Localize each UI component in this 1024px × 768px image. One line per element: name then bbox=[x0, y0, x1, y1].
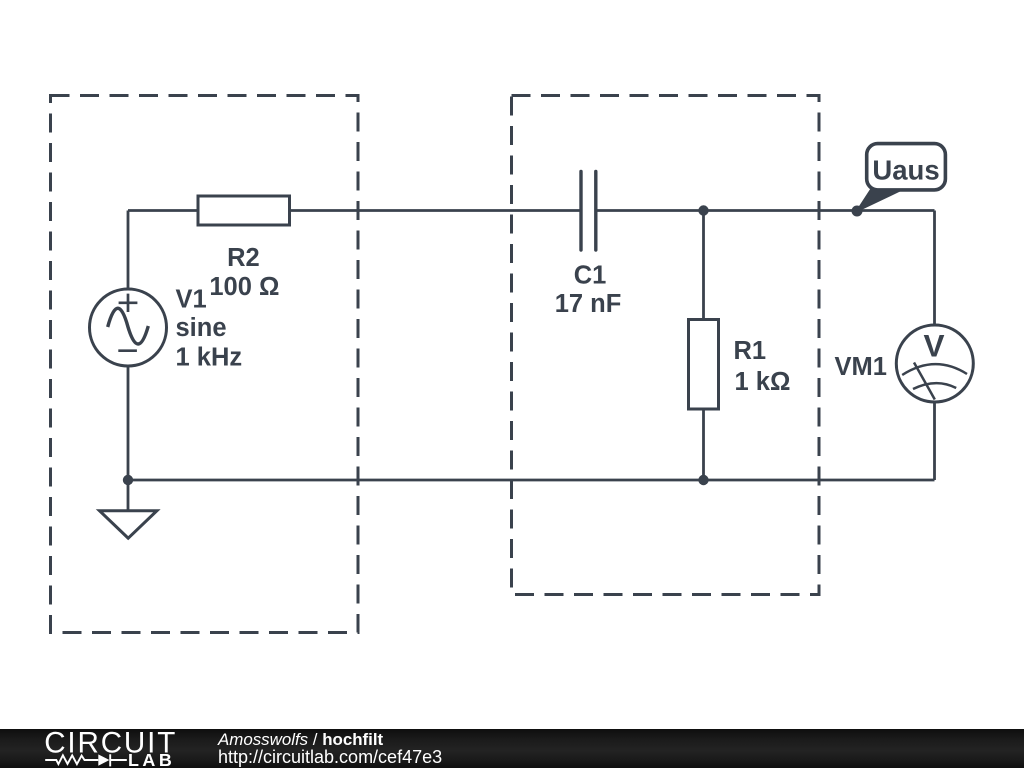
svg-text:V: V bbox=[923, 328, 944, 364]
svg-text:1 kΩ: 1 kΩ bbox=[735, 368, 791, 396]
svg-text:R1: R1 bbox=[734, 337, 767, 365]
svg-text:V1: V1 bbox=[176, 286, 207, 314]
svg-text:VM1: VM1 bbox=[835, 353, 887, 381]
svg-text:http://circuitlab.com/cef47e3: http://circuitlab.com/cef47e3 bbox=[218, 747, 442, 767]
svg-text:Uaus: Uaus bbox=[872, 155, 939, 186]
svg-text:1 kHz: 1 kHz bbox=[176, 344, 243, 372]
svg-text:C1: C1 bbox=[574, 262, 607, 290]
svg-text:100 Ω: 100 Ω bbox=[209, 273, 279, 301]
svg-text:LAB: LAB bbox=[128, 750, 175, 768]
svg-text:sine: sine bbox=[176, 314, 227, 342]
svg-text:R2: R2 bbox=[227, 244, 260, 272]
svg-text:17 nF: 17 nF bbox=[555, 290, 622, 318]
